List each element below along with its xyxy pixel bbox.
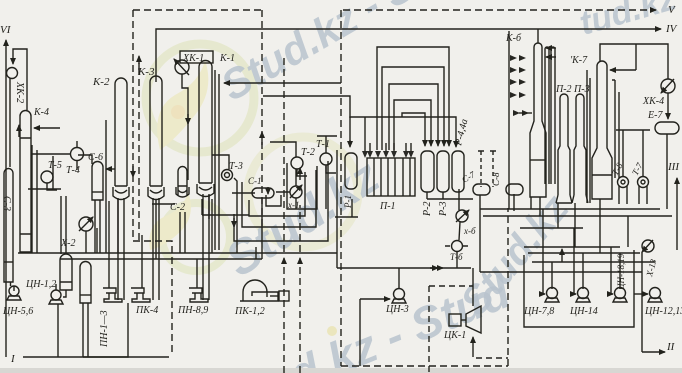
svg-text:Т-4: Т-4 <box>66 165 80 176</box>
wire into K-4 <box>34 127 60 129</box>
wire x509 vertical <box>508 31 510 209</box>
wide loop w1 <box>350 117 456 146</box>
svg-text:Т-5: Т-5 <box>48 160 62 171</box>
wire K-7 feed <box>610 69 636 71</box>
pump CN-18,19 <box>615 288 626 299</box>
wire K-1 feed <box>224 82 341 84</box>
nested U loop U4 <box>234 161 328 241</box>
K-6 feed arrows <box>510 55 529 116</box>
cooler XK-4 <box>661 79 675 93</box>
svg-text:II: II <box>666 341 676 353</box>
heat exchanger T-4 <box>71 148 84 161</box>
wire K-7 top <box>600 44 668 79</box>
wire T8 T7 top <box>616 129 650 131</box>
svg-text:ЦН-3: ЦН-3 <box>385 304 409 315</box>
svg-text:ХК-4: ХК-4 <box>642 96 664 107</box>
svg-text:ЦН-12,13: ЦН-12,13 <box>644 306 682 317</box>
dashed box B <box>341 10 508 366</box>
svg-text:Т-2: Т-2 <box>301 147 315 158</box>
column K-4 <box>20 111 31 253</box>
heat exchanger T-2 <box>291 157 303 169</box>
wire pipes into K-6 top <box>546 47 556 49</box>
wire stubs to furnace section <box>335 199 358 217</box>
watermark logo ring 1 <box>146 44 254 152</box>
wire header H2 <box>60 247 262 259</box>
svg-text:Т-1: Т-1 <box>316 139 330 150</box>
wire IV main line <box>156 29 661 82</box>
wire y96 to furnace loop <box>263 96 350 118</box>
pump CN-7,8 <box>547 288 558 299</box>
reactor R-2 <box>421 151 434 192</box>
compressor CK-1 <box>449 314 461 326</box>
wire line y215 left <box>202 195 249 219</box>
svg-text:ХК-2: ХК-2 <box>14 81 25 103</box>
cooler X-6 <box>456 210 468 222</box>
furnace feed arrows <box>365 117 411 156</box>
furnace P-1 <box>367 158 415 196</box>
svg-text:ЦК-1: ЦК-1 <box>443 330 466 341</box>
pump CN-1,2 <box>51 290 61 300</box>
svg-text:К-2: К-2 <box>92 76 110 88</box>
wire column legs <box>118 199 212 288</box>
cooler XK-2 <box>7 68 18 79</box>
companion column <box>545 47 555 184</box>
nested U loop U5 right leg <box>336 150 338 253</box>
svg-text:VI: VI <box>0 24 12 36</box>
pump CN-12,13 <box>650 288 661 299</box>
svg-text:Х-2: Х-2 <box>60 238 75 249</box>
wire CN-3 line <box>337 253 471 288</box>
wire V dashed line <box>343 9 656 11</box>
reactor R-1 <box>345 153 357 189</box>
svg-text:х-б: х-б <box>463 226 476 236</box>
dashed riser K-3 <box>138 54 140 240</box>
heat exchanger T-8 <box>618 177 629 188</box>
cooler X-2 <box>79 217 93 231</box>
wire x106 <box>105 120 107 253</box>
svg-text:III: III <box>667 161 680 173</box>
nested loop n1 <box>377 47 449 150</box>
reactor R-3 <box>437 151 449 192</box>
column K-3 <box>150 76 162 186</box>
column K-7 <box>592 61 612 199</box>
cooler X-1 <box>290 186 302 198</box>
nested loop n2 <box>382 67 444 150</box>
svg-text:ПК-1,2: ПК-1,2 <box>234 306 265 317</box>
nested U loop U3 <box>242 170 316 227</box>
svg-text:С-3: С-3 <box>1 196 12 211</box>
wire pipes P3-K7 <box>587 70 590 203</box>
svg-text:Р-2: Р-2 <box>422 202 433 217</box>
wire reactors bottom <box>427 192 514 272</box>
pump PN-1-3 <box>103 288 122 302</box>
wire pipes right of K-7 <box>612 80 619 178</box>
wire X6 T6 chain <box>457 189 460 268</box>
wire pump discharges <box>552 253 620 289</box>
junction box U1 <box>266 195 281 206</box>
wire II <box>642 252 665 352</box>
heat exchanger T-7 <box>638 177 649 188</box>
svg-text:ЦН-1,2: ЦН-1,2 <box>25 279 56 290</box>
pump CN-5,6 <box>9 286 19 296</box>
right header grid <box>480 209 672 272</box>
svg-text:'К-7: 'К-7 <box>570 55 588 66</box>
wire T-3 drops <box>234 178 237 253</box>
wire E-7 to III <box>666 134 668 209</box>
svg-text:К-1: К-1 <box>219 53 235 64</box>
pump PK-1,2 gooseneck <box>243 280 267 301</box>
wire PN-1-3 bottom <box>83 303 128 357</box>
wide loop w2 <box>402 113 425 146</box>
wire XK-1 outlet <box>182 74 188 180</box>
svg-text:Р-3: Р-3 <box>438 202 449 217</box>
vessel above CN-1,2 <box>60 254 72 290</box>
svg-text:К-б: К-б <box>505 33 522 44</box>
pump PK-4 <box>131 288 150 302</box>
pipes to vessel A <box>61 196 66 254</box>
dashed feeders PK-1,2 <box>283 258 285 373</box>
svg-text:IV: IV <box>665 23 678 35</box>
column C-6 <box>92 162 103 200</box>
cooler XK-1 <box>175 60 189 74</box>
wire C1 X1 chain <box>232 192 296 259</box>
svg-text:ЦН-14: ЦН-14 <box>569 306 598 317</box>
dashed box A right <box>261 10 263 230</box>
dashed bracket C-8 <box>481 151 493 187</box>
svg-text:П-1: П-1 <box>379 201 396 212</box>
column K-2 <box>115 78 127 186</box>
wire pipe pair <box>215 70 219 250</box>
svg-text:ПН-8,9: ПН-8,9 <box>177 305 208 316</box>
svg-text:ПН-1—3: ПН-1—3 <box>99 310 110 348</box>
wire big box under pumps <box>524 250 634 327</box>
dashed box A left <box>133 10 172 352</box>
heat exchanger T-3 <box>222 170 233 181</box>
wire T-2 T-1 loop <box>287 163 326 209</box>
wire T1 T2 top <box>270 136 337 157</box>
wire x473 vertical <box>472 268 474 306</box>
separator C-7 <box>473 184 490 195</box>
cooler X-13 <box>642 240 654 252</box>
wire XK-2 down <box>9 78 11 167</box>
watermark logo ring 2 <box>149 192 337 336</box>
column K-1 <box>199 61 212 184</box>
reactor R-4,4a <box>452 151 464 192</box>
column P-2 <box>556 94 572 203</box>
column P-3 <box>572 94 588 203</box>
wire up arrow P-2 bottom <box>561 249 563 262</box>
wire left mid runs <box>28 145 61 253</box>
wire K-4 top riser <box>13 49 27 110</box>
nested U loop U2 <box>249 172 305 216</box>
svg-text:С-6: С-6 <box>88 152 103 163</box>
pump CN-14 <box>578 288 589 299</box>
wire K-1 to T-3 <box>212 155 229 169</box>
svg-text:С-1: С-1 <box>248 176 262 186</box>
heat exchanger T-1 <box>320 153 332 165</box>
watermark logo ring 3 <box>248 137 358 247</box>
wire y204 <box>152 203 175 205</box>
svg-text:ЦН-18,19: ЦН-18,19 <box>616 253 626 291</box>
wire I line <box>23 304 169 357</box>
svg-text:Р-1: Р-1 <box>343 195 353 209</box>
svg-text:Е-7: Е-7 <box>647 110 663 121</box>
svg-text:Т-3: Т-3 <box>229 161 243 172</box>
nested loop n3 <box>389 84 438 150</box>
separator C-1 <box>252 188 274 198</box>
pump PN-8,9 <box>189 288 208 302</box>
heat exchanger T-6 <box>452 241 463 252</box>
dashed box CK-1 <box>429 286 508 372</box>
heat exchanger T-5 <box>41 171 53 183</box>
svg-text:П-2 П-3: П-2 П-3 <box>555 84 590 95</box>
column C-3 <box>4 169 13 282</box>
svg-text:К-4: К-4 <box>33 107 49 118</box>
svg-text:ЦН-5,6: ЦН-5,6 <box>2 306 33 317</box>
separator C-8 <box>506 184 523 195</box>
wire CN-3 out <box>360 298 390 300</box>
wire header H1 <box>18 252 337 254</box>
nested loop n4 <box>394 100 431 150</box>
vessel PN-1-3 <box>80 262 91 304</box>
arrow up near K-4 <box>18 125 20 137</box>
wire pump feeds <box>543 209 545 294</box>
svg-text:ЦН-7,8: ЦН-7,8 <box>523 306 554 317</box>
pump CN-3 <box>394 289 405 300</box>
bottom scan strip <box>0 368 682 373</box>
dashed box A top <box>133 10 300 373</box>
column C-2 <box>178 167 187 196</box>
svg-text:ПК-4: ПК-4 <box>135 305 158 316</box>
wire VI line <box>5 40 7 357</box>
